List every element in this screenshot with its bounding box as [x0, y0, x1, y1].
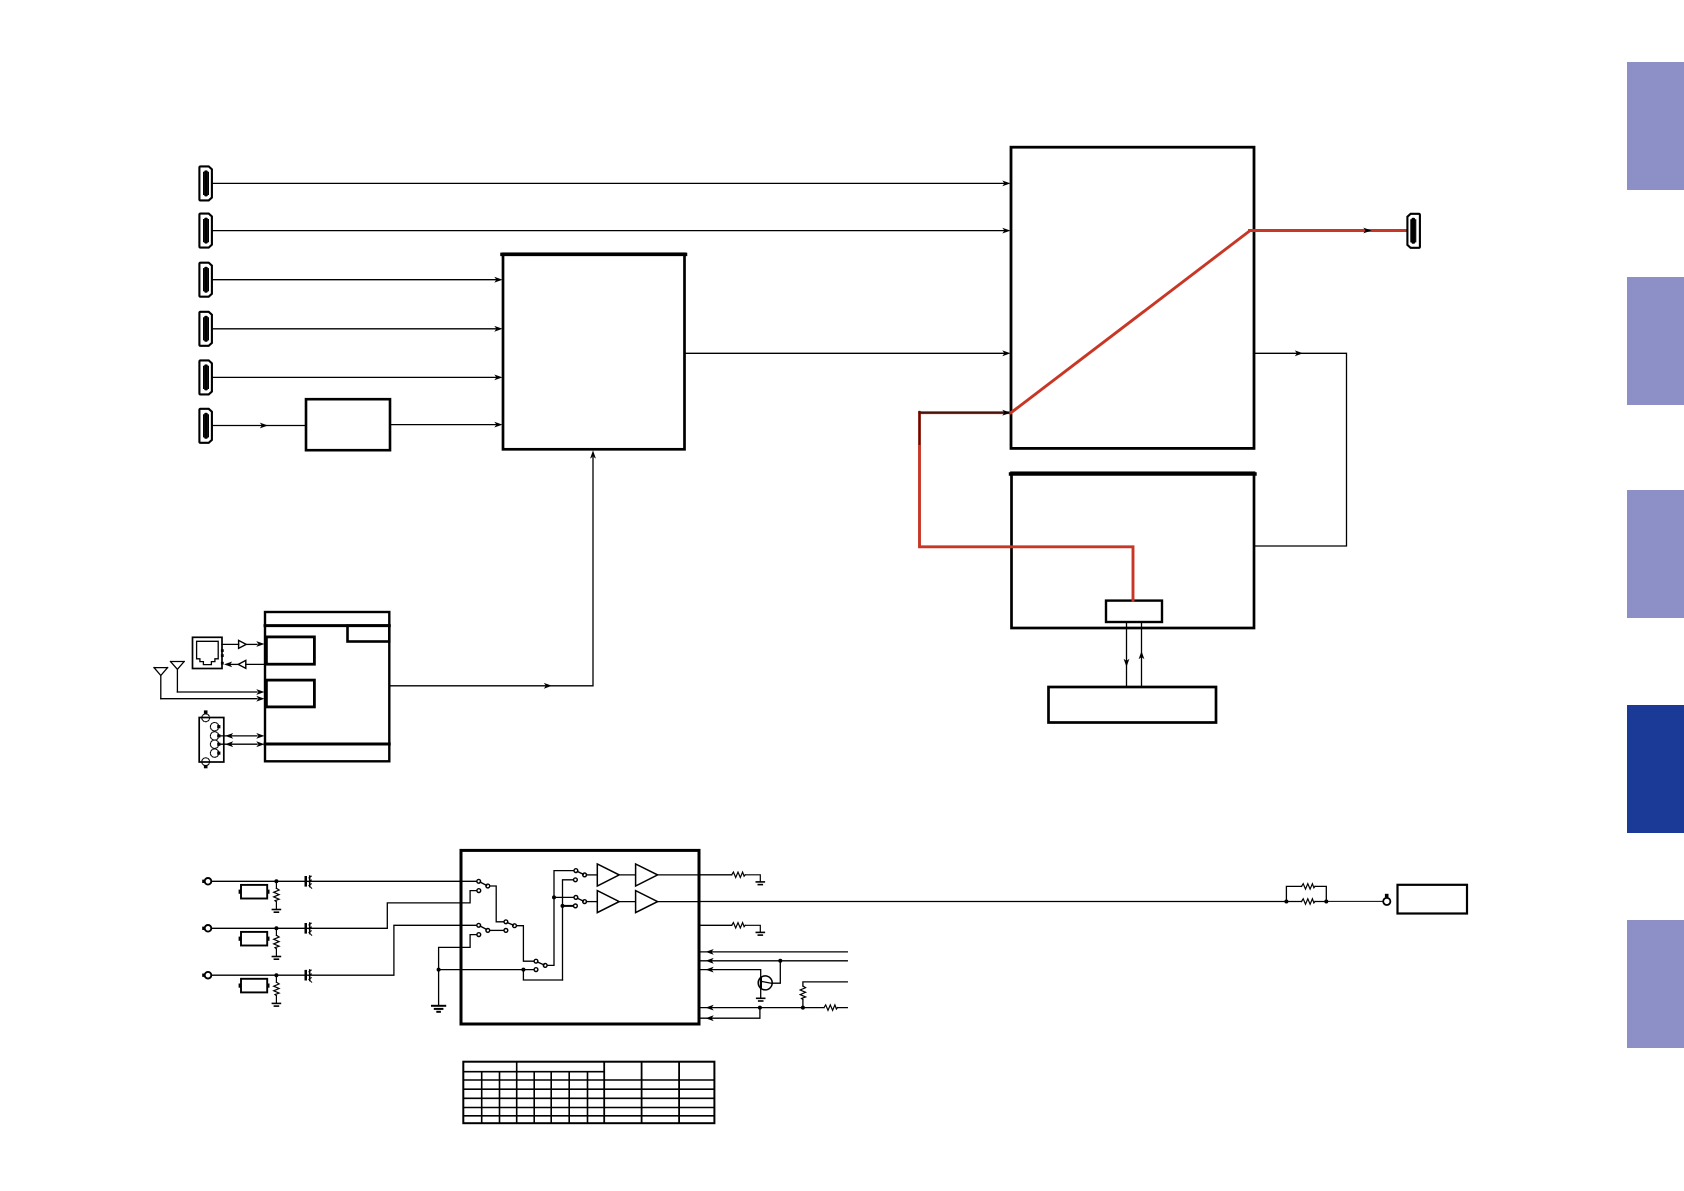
node mute line [758, 1006, 762, 1010]
red highlighted path through U2 (diagonal) [1011, 231, 1250, 413]
resistor R2 to ground [275, 928, 277, 955]
table column lines (full height) [604, 1062, 679, 1124]
wire SW1 output to SW3 [489, 886, 504, 922]
ground [756, 882, 764, 885]
node SW4 output [552, 895, 556, 899]
HDMI input connector IN3 [199, 263, 212, 297]
node ground rail [437, 968, 441, 972]
wire front block to switch U1 [390, 424, 496, 426]
HDMI input connector IN6 [199, 409, 212, 443]
wire buffer A1 to A2 [619, 874, 635, 876]
buffer LAN TX [239, 640, 247, 648]
wire buffer B2 out [658, 901, 699, 903]
wire IN3 to switch U1 [213, 279, 496, 281]
wire IN5 to switch U1 [213, 376, 496, 378]
DIN service connector [199, 718, 224, 763]
resistor R7 series [824, 1005, 838, 1010]
table row lines [463, 1080, 714, 1116]
wire EEPROM to panel (down) [1126, 622, 1128, 687]
mute ground rail in IC [563, 880, 574, 980]
front input block [306, 399, 390, 450]
LAN jack pin marks [221, 649, 224, 652]
wire buffer RX to LAN jack [230, 663, 238, 665]
zone output block [1398, 885, 1468, 914]
wire DIN to module (data) [220, 735, 257, 737]
table sub-column lines [482, 1062, 588, 1124]
wire ANT1 to module [161, 698, 257, 700]
audio input jack J1 [202, 878, 211, 885]
wire buffer A2 out [658, 874, 699, 876]
wire panel to EEPROM (up) [1141, 622, 1143, 687]
node mute rail [561, 904, 565, 908]
module internal sub-block (top right) [348, 626, 390, 642]
HDMI input connector IN4 [199, 312, 212, 346]
signal table frame [463, 1062, 714, 1124]
table header split line [463, 1071, 604, 1073]
wire SW6 to buffer B1 [586, 901, 597, 903]
HDMI input connector IN1 [199, 166, 212, 200]
ground [272, 957, 280, 960]
red highlighted signal path from EEPROM to U2 input [920, 413, 1134, 601]
HDMI switch block U1 [503, 254, 685, 449]
capacitor C3 [305, 970, 312, 982]
node ground branch in IC [521, 968, 525, 972]
wire buffer B1 to B2 [619, 901, 635, 903]
antenna ANT2 [171, 662, 185, 693]
wire ground branch to mute rail [523, 970, 562, 980]
capacitor C1 [305, 876, 312, 888]
component block L2 [241, 932, 267, 946]
red highlighted path U2 to HDMI output [1250, 229, 1407, 232]
switch SW1 [477, 879, 481, 883]
wire collector of Q1 [772, 961, 781, 983]
node R6 bottom [801, 1006, 805, 1010]
capacitor C2 [305, 923, 312, 935]
sidebar tab 1 [1627, 62, 1684, 190]
buffer A1 [597, 864, 619, 886]
component block L3 [241, 979, 267, 993]
component block L1 [241, 885, 267, 899]
buffer LAN RX [238, 660, 246, 668]
module internal sub-block RF I/F [266, 680, 314, 707]
wire IN2 to receiver U2 [213, 230, 1004, 232]
wire DIN to module (clock) [220, 743, 257, 745]
Wi-Fi / network module block [265, 612, 389, 761]
wire U2 to CPU feedback loop [1254, 353, 1347, 546]
switch SW2 [477, 923, 481, 927]
wire buffer to module [246, 643, 257, 645]
front panel block [1049, 687, 1217, 723]
switch SW6 [574, 896, 578, 900]
resistor R1 to ground [275, 881, 277, 908]
resistor R3 to ground [275, 975, 277, 1002]
module internal divider (top) [265, 624, 389, 627]
resistor R5 output load [699, 924, 732, 926]
sidebar tab 5 [1627, 920, 1684, 1048]
wire SW4 output to SW6 [554, 896, 574, 898]
node zone2 line right [1324, 900, 1328, 904]
switch SW4 [534, 959, 538, 963]
wire ground rail branch [439, 969, 534, 971]
wire IN4 to switch U1 [213, 328, 496, 330]
DIN pin 6 [202, 758, 210, 766]
buffer A2 [636, 864, 658, 886]
red path segment overlapping black wire at U2 input [920, 411, 1012, 414]
resistor R8 parallel pair (bump) [1286, 886, 1326, 901]
wire control line 2 [699, 960, 847, 962]
wire IN6 to front block [213, 425, 306, 427]
MAIN_WIFI [202, 850, 1467, 1024]
wire to output jack [1326, 900, 1383, 902]
wire control line 5 [699, 1008, 760, 1019]
wire J3 to selector IC [211, 925, 477, 975]
DIN pin 1 [202, 714, 210, 722]
wire SW4 output rail [547, 871, 574, 966]
node collector [778, 959, 782, 963]
wire SW3 output to SW4 [516, 926, 534, 962]
wire module to buffer RX [246, 663, 265, 665]
HDMI input connector IN2 [199, 214, 212, 248]
ground emitter [757, 998, 765, 1001]
sidebar tab 4 (current section) [1627, 705, 1684, 833]
MAIN_TOP [154, 450, 596, 768]
transistor Q1 [758, 976, 772, 990]
EEPROM IC inside U3 [1106, 601, 1162, 622]
wire ANT2 to module [177, 691, 257, 693]
wire U1 output to receiver U2 [685, 352, 1005, 354]
wire SW2 output to SW3 [490, 929, 504, 931]
resistor R9 in line [1302, 899, 1316, 904]
node J1 [274, 879, 278, 883]
ground [756, 932, 764, 935]
MAIN_AUDIO [463, 1062, 714, 1124]
wire zone2 audio out (long) [699, 901, 1326, 903]
ground [272, 1003, 280, 1006]
wire control line 4 [699, 1007, 847, 1009]
DIN pin 4 [210, 740, 218, 748]
resistor R4 output load [699, 874, 732, 876]
DIN pin 5 [210, 749, 218, 757]
sidebar tab 2 [1627, 277, 1684, 405]
ground [272, 910, 280, 913]
wire SW6 mute contact [563, 905, 574, 907]
CPU block U3 [1012, 473, 1255, 628]
antenna ANT1 [154, 668, 168, 699]
DIN pin 2 [210, 723, 218, 731]
HDMI receiver block U2 [1011, 147, 1254, 448]
wire control line 3 (base) [699, 970, 761, 979]
audio input jack J3 [202, 972, 211, 979]
wire SW5 to buffer A1 [586, 874, 597, 876]
module internal divider (bottom) [265, 743, 389, 746]
node zone2 line left [1284, 900, 1288, 904]
wire module output to U1 [389, 458, 593, 686]
wire J2 to selector IC [211, 891, 477, 929]
wire control line 1 [699, 951, 847, 953]
buffer B2 [636, 891, 658, 913]
wire IN1 to receiver U2 [213, 182, 1004, 184]
resistor R6 pull [803, 982, 847, 1008]
LAN jack connector [193, 637, 223, 668]
module internal sub-block LAN I/F [266, 637, 314, 664]
node J3 [274, 973, 278, 977]
node J2 [274, 926, 278, 930]
ground [432, 1006, 445, 1012]
HDMI input connector IN5 [199, 360, 212, 394]
switch SW5 [574, 869, 578, 873]
wire LAN jack to buffer [222, 643, 239, 645]
audio input jack J2 [202, 925, 211, 932]
output jack J4 [1383, 898, 1390, 905]
switch SW3 [504, 920, 508, 924]
DIN pin 3 [210, 732, 218, 740]
HDMI output connector OUT [1407, 214, 1420, 248]
audio selector IC block [461, 850, 699, 1024]
buffer B1 [597, 891, 619, 913]
wire J1 to selector IC [211, 880, 477, 882]
ground rail to selector [439, 935, 477, 1005]
sidebar tab 3 [1627, 490, 1684, 618]
